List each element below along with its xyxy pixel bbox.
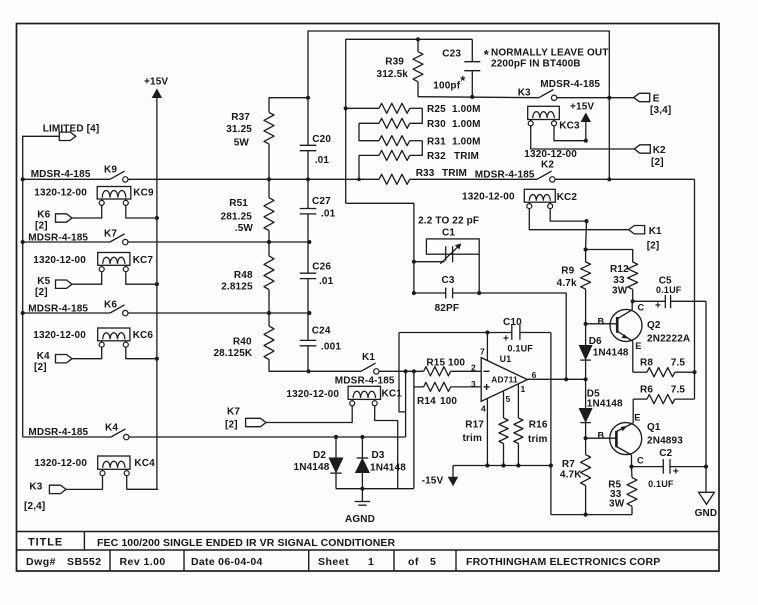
- junction rail/KC6: [155, 357, 159, 361]
- svg-text:K6: K6: [104, 300, 117, 311]
- junction output/D5-D6: [584, 377, 588, 381]
- relay coil KC9: [97, 187, 154, 206]
- capacitor C1 (trimmer): [414, 228, 479, 264]
- svg-text:2: 2: [471, 363, 476, 373]
- wire K3 to E tag: [557, 97, 634, 99]
- svg-text:[2,4]: [2,4]: [24, 501, 45, 512]
- svg-text:Dwg#: Dwg#: [26, 556, 56, 568]
- wire R37 top to C-chain top: [269, 98, 308, 113]
- junction R25/left vertical: [344, 106, 348, 110]
- wire KC2 right pin down: [550, 208, 586, 221]
- svg-text:+15V: +15V: [570, 102, 594, 113]
- svg-text:Sheet: Sheet: [318, 556, 349, 568]
- wire limited feeder: [23, 136, 60, 437]
- resistor R17: [463, 418, 509, 466]
- svg-text:K4: K4: [105, 423, 118, 434]
- svg-text:4.7k: 4.7k: [557, 278, 577, 289]
- svg-text:+15V: +15V: [144, 77, 168, 88]
- junction R17/-15V: [501, 463, 505, 467]
- resistor R51: [221, 179, 275, 242]
- power +15V (right): [570, 102, 594, 141]
- svg-text:7: 7: [480, 347, 485, 357]
- ground GND: [695, 492, 718, 519]
- junction R7/bottom: [584, 513, 588, 517]
- junction K9/R-chain: [267, 177, 271, 181]
- svg-text:7.5: 7.5: [671, 385, 686, 396]
- wire R33 to K2 switch: [410, 178, 537, 180]
- svg-text:K7: K7: [104, 229, 117, 240]
- wire C3 row: [413, 262, 415, 293]
- wire C1 right side down: [478, 254, 480, 293]
- svg-text:1N4148: 1N4148: [370, 463, 406, 474]
- wire top rail: [308, 31, 609, 98]
- connector tag E: [634, 93, 650, 101]
- svg-text:Q1: Q1: [647, 422, 661, 433]
- svg-text:K5: K5: [37, 276, 50, 287]
- svg-text:C10: C10: [503, 317, 522, 328]
- svg-text:FEC 100/200 SINGLE ENDED IR VR: FEC 100/200 SINGLE ENDED IR VR SIGNAL CO…: [97, 537, 395, 549]
- svg-text:K2: K2: [541, 160, 554, 171]
- resistor R33: [379, 168, 467, 184]
- junction D2 top: [334, 435, 338, 439]
- svg-text:R33: R33: [416, 168, 435, 179]
- junction K7/C-chain: [307, 240, 311, 244]
- svg-text:28.125K: 28.125K: [213, 348, 252, 359]
- junction C23 bottom: [470, 95, 474, 99]
- wire KC6 left pin to K4 tag: [72, 347, 102, 359]
- switch K7: [110, 234, 125, 242]
- svg-text:1320-12-00: 1320-12-00: [33, 255, 86, 266]
- svg-text:R37: R37: [231, 112, 250, 123]
- svg-text:C3: C3: [442, 275, 455, 286]
- svg-text:1N4148: 1N4148: [294, 462, 330, 473]
- svg-text:MDSR-4-185: MDSR-4-185: [475, 170, 535, 181]
- wire KC4 right pin stub: [126, 475, 128, 489]
- svg-text:[2]: [2]: [647, 241, 660, 252]
- svg-text:D2: D2: [313, 450, 326, 461]
- junction pin4/-15V: [485, 463, 489, 467]
- svg-text:.01: .01: [321, 209, 336, 220]
- svg-text:[2]: [2]: [35, 287, 48, 298]
- junction limited/K7: [21, 240, 25, 244]
- connector tag K5: [56, 280, 73, 288]
- wire K4 row right (to D2/D3 node): [129, 436, 405, 438]
- junction K2 row / box vertical: [607, 177, 611, 181]
- resistor R39: [377, 39, 424, 96]
- wire R39 bottom / C23 bottom to K3 switch: [418, 97, 539, 98]
- junction K1 row/R14 vertical: [412, 369, 416, 373]
- title block: [17, 532, 720, 572]
- svg-text:R25: R25: [427, 104, 446, 115]
- svg-text:Rev 1.00: Rev 1.00: [120, 556, 166, 568]
- svg-text:E: E: [634, 413, 640, 423]
- wire K4 row: [23, 436, 111, 438]
- svg-text:B: B: [598, 431, 605, 441]
- wire KC2 left pin to K1 tag: [529, 208, 628, 230]
- svg-text:100: 100: [448, 358, 465, 369]
- resistor R8: [633, 358, 695, 377]
- junction R39 top: [416, 37, 420, 41]
- svg-text:MDSR-4-185: MDSR-4-185: [31, 169, 91, 180]
- wire output pin6: [527, 378, 585, 380]
- svg-text:KC9: KC9: [133, 188, 154, 199]
- junction K6/R-chain: [267, 311, 271, 315]
- resistor R31: [379, 136, 481, 148]
- svg-text:MDSR-4-185: MDSR-4-185: [540, 79, 600, 90]
- svg-text:C27: C27: [312, 196, 331, 207]
- wire pin4 stub: [486, 399, 488, 466]
- junction C3 left: [412, 291, 416, 295]
- svg-text:KC3: KC3: [559, 121, 580, 132]
- svg-text:1320-12-00: 1320-12-00: [286, 389, 339, 400]
- svg-text:+: +: [655, 301, 661, 312]
- transistor Q2 2N2222A: [586, 301, 691, 372]
- wire R39/C23 loop: [346, 39, 473, 203]
- wire K2 row right: [555, 178, 694, 180]
- svg-text:1N4148: 1N4148: [587, 399, 623, 410]
- diode D3: [356, 437, 407, 489]
- junction output/feedback: [564, 377, 568, 381]
- svg-text:E: E: [653, 94, 660, 105]
- svg-text:281.25: 281.25: [221, 212, 253, 223]
- switch K6: [110, 305, 125, 313]
- capacitor C26: [300, 242, 334, 313]
- wire KC1 left pin to K7 tag: [266, 405, 352, 422]
- junction R12/Q2 collector/C5: [631, 299, 635, 303]
- svg-text:2200pF IN BT400B: 2200pF IN BT400B: [491, 59, 581, 70]
- svg-text:K1: K1: [362, 352, 375, 363]
- svg-text:2.8125: 2.8125: [221, 282, 253, 293]
- capacitor C2: [632, 448, 707, 489]
- wire feedback to output: [479, 293, 566, 379]
- wire KC4 left pin to K3 tag: [66, 475, 103, 489]
- power +15V (left): [144, 77, 168, 359]
- wire R25-R30 u-turn: [410, 108, 423, 123]
- note NORMALLY LEAVE OUT: [484, 47, 609, 70]
- junction D3 top: [360, 435, 364, 439]
- wire pin5 stub: [503, 391, 505, 418]
- connector tag K7: [246, 418, 266, 426]
- junction KC3/+15V: [584, 139, 588, 143]
- svg-text:K6: K6: [37, 210, 50, 221]
- wire box vertical (K3 to K2 row): [608, 98, 610, 180]
- op-amp U1 AD711: [471, 347, 537, 414]
- svg-text:TRIM: TRIM: [454, 151, 479, 162]
- svg-text:R6: R6: [640, 385, 653, 396]
- svg-text:R30: R30: [427, 119, 446, 130]
- svg-text:R15: R15: [426, 358, 445, 369]
- capacitor C3: [414, 275, 479, 314]
- svg-text:K3: K3: [518, 88, 531, 99]
- resistor R30: [359, 118, 481, 130]
- svg-text:Date 06-04-04: Date 06-04-04: [191, 556, 263, 568]
- resistor R25: [346, 103, 481, 115]
- svg-text:C: C: [637, 455, 644, 465]
- wire +15V rail to KC4: [127, 359, 157, 490]
- svg-text:33: 33: [613, 275, 625, 286]
- wire -15V bottom to R5: [551, 514, 632, 516]
- connector tag K3: [49, 485, 66, 493]
- wire -15V row: [453, 465, 551, 467]
- relay coil KC6: [98, 328, 154, 347]
- wire node X vertical: [405, 371, 407, 437]
- svg-text:K3: K3: [29, 482, 42, 493]
- wire K7 row: [23, 241, 110, 243]
- svg-text:NORMALLY LEAVE OUT: NORMALLY LEAVE OUT: [491, 48, 609, 59]
- svg-text:R32: R32: [427, 151, 446, 162]
- svg-text:[2]: [2]: [34, 362, 47, 373]
- svg-text:3W: 3W: [612, 286, 628, 297]
- svg-text:K9: K9: [104, 165, 117, 176]
- ground AGND: [345, 489, 375, 525]
- junction rail/KC9: [155, 216, 159, 220]
- switch K9: [110, 171, 125, 179]
- junction K7/R-chain: [267, 240, 271, 244]
- wire KC9 right pin to +15V rail: [126, 205, 157, 218]
- switch K2: [537, 171, 552, 179]
- svg-text:C24: C24: [312, 326, 331, 337]
- svg-text:4: 4: [481, 404, 486, 414]
- svg-text:C20: C20: [312, 134, 331, 145]
- connector tag K6: [56, 214, 73, 222]
- svg-text:[2]: [2]: [35, 221, 48, 232]
- resistor R16: [514, 418, 548, 466]
- svg-text:5: 5: [430, 556, 436, 568]
- wire C5 to GND vertical: [705, 301, 707, 492]
- svg-text:R7: R7: [562, 459, 575, 470]
- resistor R48: [221, 242, 274, 313]
- switch K1: [361, 363, 376, 371]
- resistor R5: [608, 467, 637, 515]
- wire C10 right to -15V net: [550, 333, 552, 515]
- connector tag K1: [629, 226, 645, 234]
- svg-text:MDSR-4-185: MDSR-4-185: [335, 376, 395, 387]
- svg-text:[2]: [2]: [651, 157, 664, 168]
- resistor R12: [586, 250, 638, 302]
- wire bus-left vertical with jog: [399, 333, 406, 412]
- svg-text:K7: K7: [227, 407, 240, 418]
- svg-text:C1: C1: [442, 228, 455, 239]
- svg-text:*: *: [484, 47, 490, 62]
- relay coil KC7: [98, 253, 154, 272]
- junction Q1 collector/C2/R5: [629, 465, 633, 469]
- svg-text:K4: K4: [37, 351, 50, 362]
- junction R37/C20: [306, 96, 310, 100]
- diode D6: [579, 336, 629, 379]
- junction R8/feedback vertical: [692, 370, 696, 374]
- svg-text:trim: trim: [463, 433, 483, 444]
- svg-text:SB552: SB552: [67, 556, 102, 568]
- resistor R6: [633, 385, 694, 404]
- resistor R40: [213, 313, 274, 360]
- svg-text:R12: R12: [610, 264, 629, 275]
- resistor R7: [560, 438, 591, 514]
- wire R30-R31 u-turn: [359, 123, 379, 140]
- svg-text:2N2222A: 2N2222A: [647, 334, 690, 345]
- svg-text:KC2: KC2: [557, 192, 578, 203]
- wire feedback right vertical: [694, 179, 696, 399]
- wire serpentine node to C1/C3: [346, 203, 414, 261]
- svg-text:R17: R17: [465, 420, 484, 431]
- svg-text:-15V: -15V: [422, 476, 444, 487]
- svg-text:R14: R14: [417, 396, 436, 407]
- wire R14/AGND vertical: [413, 371, 415, 488]
- svg-text:K1: K1: [649, 226, 662, 237]
- junction C3 right: [477, 291, 481, 295]
- svg-text:KC7: KC7: [133, 255, 154, 266]
- wire KC3 left pin to K2 tag: [531, 126, 635, 150]
- resistor R37: [226, 112, 274, 179]
- junction KC2/R9 line: [584, 219, 588, 223]
- wire K1 row right: [379, 370, 423, 372]
- svg-text:C: C: [638, 303, 645, 313]
- connector tag K4: [56, 355, 73, 363]
- switch K4: [111, 429, 126, 437]
- svg-text:312.5k: 312.5k: [377, 69, 409, 80]
- svg-text:1320-12-00: 1320-12-00: [34, 188, 87, 199]
- junction K9/C-chain: [306, 177, 310, 181]
- wire KC6 right pin to +15V rail: [126, 347, 157, 359]
- svg-text:trim: trim: [528, 434, 548, 445]
- svg-text:+: +: [673, 466, 679, 478]
- relay coil KC4: [98, 456, 155, 476]
- junction C2/GND vertical: [704, 465, 708, 469]
- junction -15V/C10 vertical: [549, 463, 553, 467]
- svg-text:of: of: [408, 556, 419, 568]
- svg-text:R40: R40: [233, 337, 252, 348]
- junction AGND stub: [360, 487, 364, 491]
- junction K1 row/node X: [404, 369, 408, 373]
- svg-text:*: *: [460, 73, 466, 88]
- svg-text:KC4: KC4: [134, 458, 155, 469]
- svg-text:KC6: KC6: [133, 330, 154, 341]
- wire KC3 right pin to +15V: [554, 126, 586, 141]
- svg-text:1320-12-00: 1320-12-00: [462, 192, 515, 203]
- svg-text:82PF: 82PF: [435, 303, 460, 314]
- junction K3 row / box vertical: [607, 96, 611, 100]
- svg-text:R51: R51: [229, 198, 248, 209]
- wire KC7 right pin to +15V rail: [126, 271, 157, 284]
- junction limited/K9: [21, 177, 25, 181]
- svg-text:FROTHINGHAM ELECTRONICS CORP: FROTHINGHAM ELECTRONICS CORP: [466, 556, 660, 568]
- wire R40 bottom to K1 row: [269, 360, 309, 372]
- power -15V: [422, 466, 459, 487]
- wire K9 row right: [128, 178, 379, 180]
- svg-text:3W: 3W: [609, 499, 625, 510]
- svg-text:.01: .01: [319, 276, 334, 287]
- relay coil KC1: [348, 386, 402, 406]
- svg-text:3: 3: [471, 379, 476, 389]
- connector tag LIMITED: [59, 132, 76, 140]
- junction limited/K6: [21, 311, 25, 315]
- svg-text:K2: K2: [653, 145, 666, 156]
- svg-text:R48: R48: [234, 270, 253, 281]
- svg-text:1: 1: [521, 384, 526, 394]
- svg-text:7.5: 7.5: [671, 358, 686, 369]
- svg-text:B: B: [598, 317, 605, 327]
- svg-text:0.1UF: 0.1UF: [656, 285, 682, 295]
- svg-text:100pf: 100pf: [433, 81, 460, 92]
- svg-text:[2]: [2]: [225, 420, 238, 431]
- svg-text:C26: C26: [312, 262, 331, 273]
- wire AGND bottom: [336, 488, 414, 490]
- junction pin7/bus: [485, 330, 489, 334]
- svg-text:1N4148: 1N4148: [593, 348, 629, 359]
- wire K9 row left: [23, 178, 110, 180]
- svg-text:2N4893: 2N4893: [647, 436, 683, 447]
- wire K6 row right: [128, 312, 309, 314]
- svg-text:R8: R8: [640, 358, 653, 369]
- svg-text:0.1UF: 0.1UF: [648, 479, 674, 489]
- resistor R14: [414, 382, 481, 407]
- wire KC1 right pin to AGND wire: [375, 405, 398, 488]
- svg-text:.001: .001: [321, 342, 341, 353]
- svg-text:E: E: [635, 341, 641, 351]
- junction rail/KC7: [155, 282, 159, 286]
- wire KC9 left pin to K6 tag: [72, 205, 102, 218]
- junction C24/K1 row: [306, 369, 310, 373]
- svg-text:GND: GND: [695, 508, 718, 519]
- capacitor C20: [300, 98, 332, 180]
- svg-text:1.00M: 1.00M: [452, 119, 481, 130]
- svg-text:31.25: 31.25: [226, 124, 252, 135]
- svg-text:R31: R31: [427, 137, 446, 148]
- wire R32-R33 u-turn: [358, 155, 360, 179]
- connector tag K2: [634, 145, 650, 153]
- wire KC7 left pin to K5 tag: [72, 271, 102, 284]
- wire pin1 stub: [517, 384, 519, 418]
- svg-text:6: 6: [532, 370, 537, 380]
- relay coil KC3: [528, 106, 580, 131]
- svg-text:2.2 TO 22 pF: 2.2 TO 22 pF: [418, 216, 479, 227]
- svg-text:.01: .01: [315, 155, 330, 166]
- svg-text:D3: D3: [372, 450, 385, 461]
- svg-text:1.00M: 1.00M: [452, 104, 481, 115]
- svg-text:R39: R39: [385, 57, 404, 68]
- relay coil KC2: [524, 189, 577, 208]
- svg-text:[3,4]: [3,4]: [650, 105, 671, 116]
- svg-text:AGND: AGND: [345, 514, 375, 525]
- svg-text:1: 1: [368, 556, 374, 568]
- wire K6 row: [23, 312, 110, 314]
- capacitor C24: [300, 313, 342, 371]
- svg-text:5W: 5W: [234, 138, 250, 149]
- junction R16/-15V: [516, 463, 520, 467]
- svg-text:R9: R9: [561, 266, 574, 277]
- junction Q1 base: [584, 436, 588, 440]
- svg-text:.5W: .5W: [235, 223, 254, 234]
- junction Q2 base: [584, 322, 588, 326]
- capacitor C10: [399, 317, 551, 354]
- svg-text:AD711: AD711: [491, 374, 518, 384]
- resistor R9: [557, 221, 591, 345]
- junction C1 left: [412, 260, 416, 264]
- wire pin7 stub: [486, 333, 488, 361]
- svg-text:Q2: Q2: [647, 320, 661, 331]
- wire K1 row left: [309, 370, 362, 372]
- svg-text:1320-12-00: 1320-12-00: [524, 149, 577, 160]
- svg-text:TRIM: TRIM: [442, 168, 467, 179]
- switch K3: [539, 90, 554, 98]
- transistor Q1 2N4893: [586, 399, 684, 467]
- svg-text:C23: C23: [442, 49, 461, 60]
- capacitor C23: [433, 39, 480, 96]
- junction K9/R32 U-turn: [357, 178, 361, 182]
- resistor R15: [424, 358, 482, 376]
- svg-text:0.1UF: 0.1UF: [508, 344, 534, 354]
- capacitor C27: [300, 179, 336, 242]
- resistor R32: [359, 150, 479, 162]
